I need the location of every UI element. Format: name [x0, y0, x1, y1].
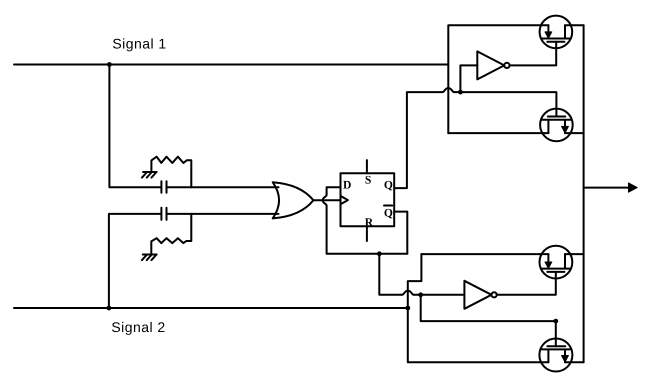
wire Signal 2 branch up to RC — [109, 214, 160, 308]
wire Signal 2 horizontal — [14, 307, 408, 309]
transistor M4 — [539, 339, 572, 372]
wire M3 right terminal to rail — [565, 253, 584, 255]
wire branch up to inverter U3 input — [460, 65, 477, 92]
wire branch down to M4 gate — [421, 295, 556, 321]
wire Q output — [394, 92, 442, 188]
wire C1 output to OR gate input — [168, 186, 279, 188]
or-gate U1 — [273, 182, 314, 218]
wire M2 left terminal — [448, 132, 548, 134]
node Signal 2 junction dot — [107, 306, 112, 311]
label Qbar — [384, 206, 393, 220]
wire Qbar output — [394, 212, 407, 254]
wire Q horizontal to M2 gate — [454, 92, 556, 116]
wire Qbar net step down to M3/M4 left terminals — [408, 254, 549, 362]
wire C2 output to OR gate input — [168, 213, 279, 215]
resistor R1 — [151, 157, 191, 188]
wire Signal1 up branch to M1 — [448, 25, 548, 133]
node M4 gate corner dot — [553, 319, 558, 324]
wire U3 output to M1 gate — [510, 42, 557, 66]
node branch dot at inverter input — [418, 292, 423, 297]
wire D input from feedback — [327, 187, 341, 195]
svg-text:Signal 2: Signal 2 — [111, 319, 165, 335]
wire hop over lower vertical — [402, 291, 414, 295]
wire M4 right terminal to rail — [565, 361, 584, 363]
transistor M3 — [540, 246, 573, 279]
wire feedback vertical hop over clock wire — [323, 195, 327, 206]
capacitor C2 — [161, 208, 166, 220]
inverter U3 — [477, 51, 509, 79]
wire U4 output to M3 gate — [497, 272, 556, 295]
wire feedback down branch to inverter U4 — [379, 254, 402, 295]
svg-text:S: S — [365, 174, 371, 187]
svg-text:Signal 1: Signal 1 — [112, 36, 166, 52]
svg-text:Q: Q — [384, 206, 393, 219]
flip-flop U2 box — [341, 173, 395, 226]
wire right output rail — [583, 25, 585, 362]
wire R input stub — [366, 226, 368, 241]
wire OR output to clock input — [313, 199, 340, 201]
node feedback junction dot — [377, 251, 382, 256]
inverter U4 — [464, 281, 496, 309]
wire output with arrow — [584, 183, 638, 192]
clock input triangle — [341, 196, 348, 204]
node Signal 2 tee dot — [405, 306, 410, 311]
node Q branch dot — [458, 90, 463, 95]
wire feedback vertical lower part — [327, 206, 408, 254]
wire Signal 1 branch down to RC — [109, 65, 160, 188]
wire M2 right terminal to rail — [565, 132, 584, 134]
capacitor C1 — [161, 181, 166, 193]
svg-text:D: D — [343, 179, 351, 192]
svg-text:Q: Q — [384, 179, 393, 192]
transistor M1 — [540, 16, 573, 49]
ground G2 — [142, 255, 157, 261]
wire to inverter U4 input — [414, 294, 465, 296]
wire M4 gate lead — [555, 321, 557, 346]
node Signal 1 junction dot — [107, 62, 112, 67]
transistor M2 — [540, 109, 573, 142]
ground G1 — [142, 172, 157, 178]
wire M1 right terminal to rail — [565, 24, 584, 26]
wire M3 left terminal — [421, 253, 548, 255]
wire S input stub — [366, 160, 368, 173]
wire Signal 1 horizontal — [14, 64, 448, 66]
resistor R2 — [151, 214, 191, 255]
wire Q horizontal hop over signal1 vertical — [442, 88, 454, 92]
